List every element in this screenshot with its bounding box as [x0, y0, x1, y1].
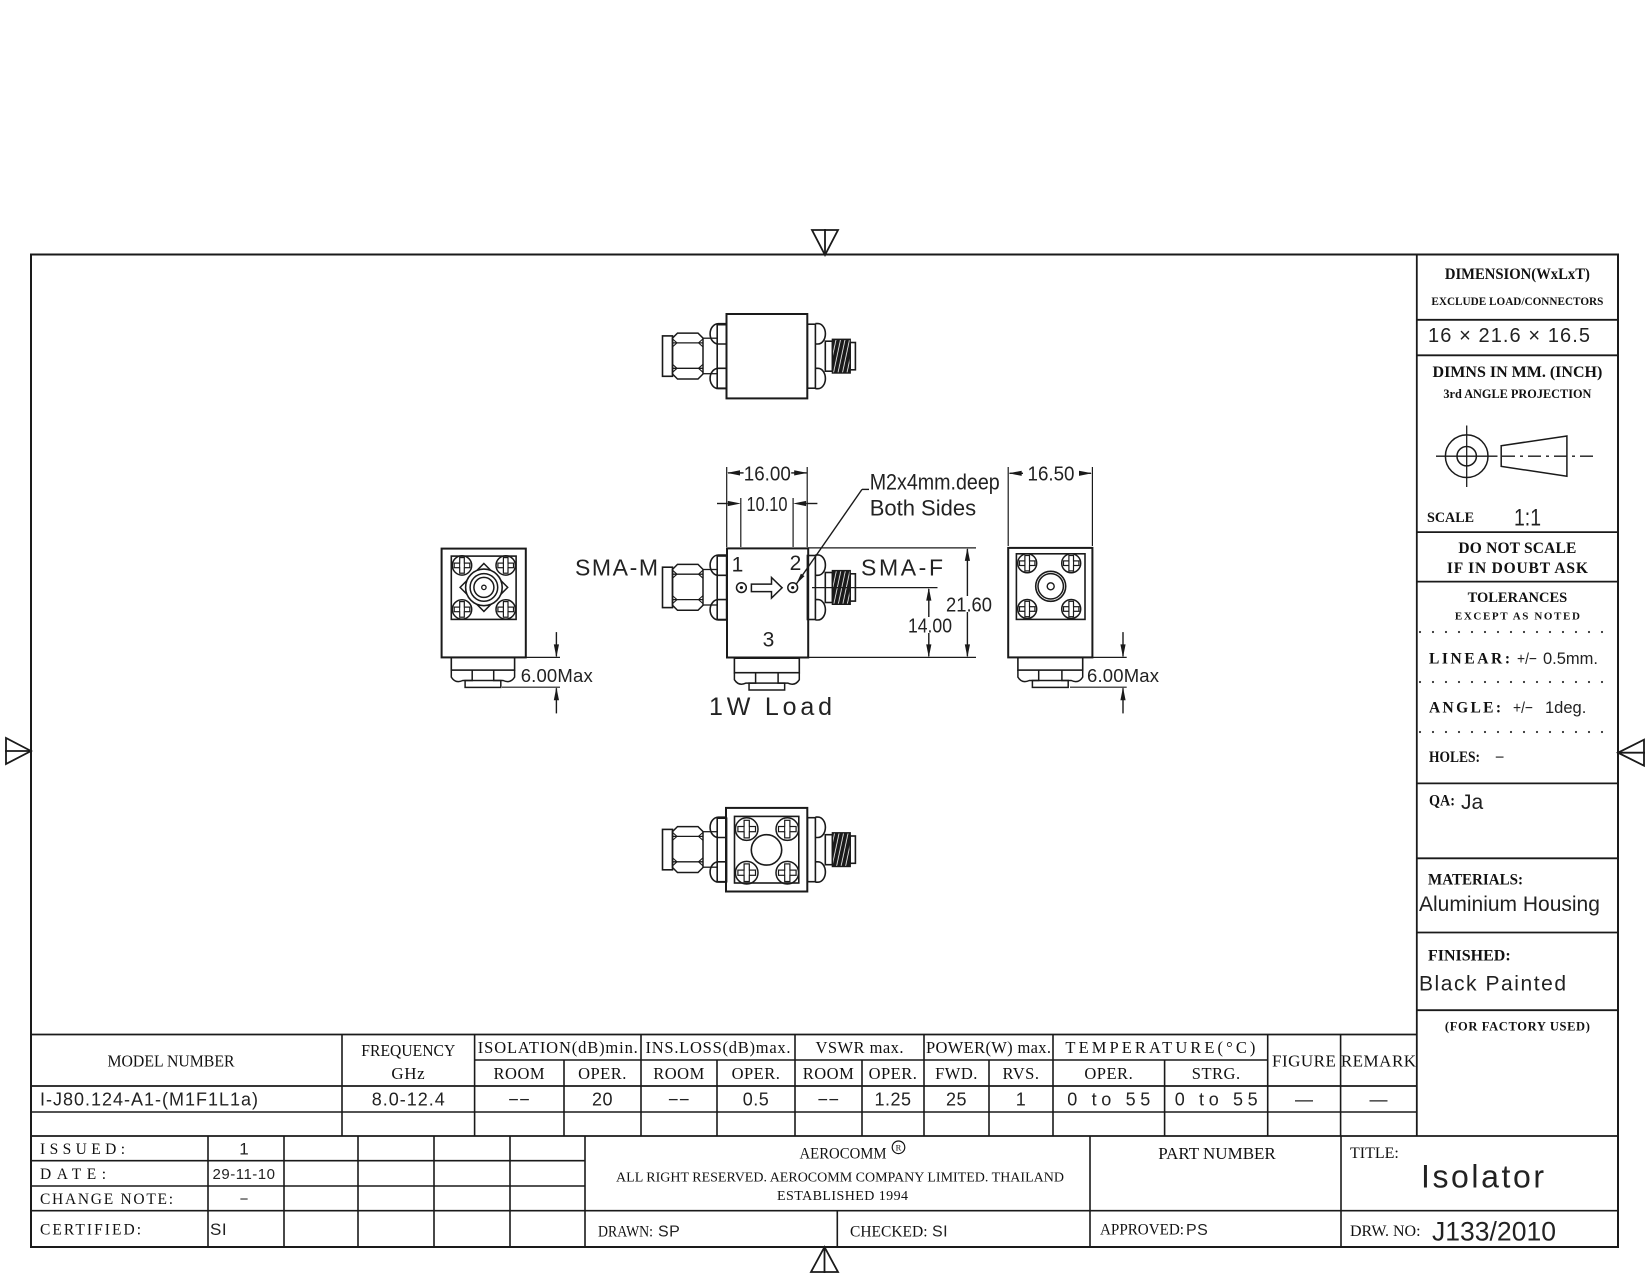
svg-text:—: — — [1295, 1090, 1314, 1110]
svg-text:DIMENSION(WxLxT): DIMENSION(WxLxT) — [1445, 266, 1590, 283]
svg-text:OPER.: OPER. — [578, 1064, 627, 1083]
svg-text:ROOM: ROOM — [803, 1064, 855, 1083]
svg-text:ESTABLISHED 1994: ESTABLISHED 1994 — [777, 1189, 908, 1204]
svg-text:6.00Max: 6.00Max — [521, 665, 594, 686]
svg-text:OPER.: OPER. — [732, 1064, 781, 1083]
svg-text:APPROVED:: APPROVED: — [1100, 1222, 1184, 1239]
svg-text:DATE:: DATE: — [40, 1166, 106, 1183]
svg-text:SMA-F: SMA-F — [861, 554, 943, 580]
svg-text:Ja: Ja — [1461, 791, 1484, 814]
svg-text:SCALE: SCALE — [1427, 510, 1474, 526]
svg-text:ALL RIGHT RESERVED. AEROCOMM: ALL RIGHT RESERVED. AEROCOMM COMPANY LIM… — [616, 1171, 1064, 1186]
svg-text:QA:: QA: — [1429, 793, 1455, 810]
svg-text:DRAWN:: DRAWN: — [598, 1223, 653, 1240]
svg-text:ISOLATION(dB)min.: ISOLATION(dB)min. — [478, 1038, 638, 1057]
svg-text:MATERIALS:: MATERIALS: — [1428, 872, 1523, 889]
svg-text:Black Painted: Black Painted — [1419, 972, 1566, 995]
svg-text:ROOM: ROOM — [494, 1064, 546, 1083]
svg-text:16.50: 16.50 — [1028, 463, 1075, 486]
svg-text:DRW. NO:: DRW. NO: — [1350, 1223, 1421, 1240]
svg-text:−−: −− — [508, 1090, 530, 1110]
svg-text:TOLERANCES: TOLERANCES — [1468, 590, 1568, 606]
svg-text:TITLE:: TITLE: — [1350, 1145, 1399, 1162]
svg-text:Aluminium Housing: Aluminium Housing — [1419, 893, 1600, 916]
svg-text:20: 20 — [592, 1090, 613, 1110]
svg-text:ISSUED:: ISSUED: — [40, 1141, 125, 1158]
svg-text:R: R — [896, 1143, 902, 1153]
svg-text:REMARK: REMARK — [1341, 1051, 1417, 1070]
svg-text:ANGLE:: ANGLE: — [1429, 700, 1501, 717]
svg-text:−: − — [240, 1191, 249, 1208]
svg-text:EXCEPT AS NOTED: EXCEPT AS NOTED — [1455, 611, 1580, 623]
svg-text:1.25: 1.25 — [874, 1090, 911, 1110]
svg-text:1: 1 — [239, 1140, 248, 1159]
svg-text:−−: −− — [668, 1090, 690, 1110]
svg-text:1deg.: 1deg. — [1545, 699, 1586, 717]
svg-text:LINEAR:: LINEAR: — [1429, 651, 1510, 668]
svg-text:0 to 55: 0 to 55 — [1175, 1090, 1258, 1110]
svg-text:EXCLUDE LOAD/CONNECTORS: EXCLUDE LOAD/CONNECTORS — [1431, 294, 1603, 308]
svg-text:3rd ANGLE PROJECTION: 3rd ANGLE PROJECTION — [1443, 387, 1591, 401]
svg-text:1:1: 1:1 — [1514, 505, 1541, 532]
svg-text:M2x4mm.deep: M2x4mm.deep — [870, 469, 1000, 494]
svg-text:16.00: 16.00 — [744, 462, 791, 485]
svg-text:21.60: 21.60 — [946, 593, 992, 616]
svg-text:ROOM: ROOM — [653, 1064, 705, 1083]
svg-text:+/−: +/− — [1517, 651, 1537, 668]
svg-text:OPER.: OPER. — [869, 1064, 918, 1083]
svg-text:TEMPERATURE(°C): TEMPERATURE(°C) — [1065, 1038, 1255, 1057]
svg-text:Both Sides: Both Sides — [870, 495, 976, 520]
svg-text:1: 1 — [1016, 1090, 1027, 1110]
svg-text:0 to 55: 0 to 55 — [1067, 1090, 1150, 1110]
svg-text:CHECKED:: CHECKED: — [850, 1223, 928, 1240]
svg-text:OPER.: OPER. — [1084, 1064, 1133, 1083]
svg-text:0.5mm.: 0.5mm. — [1543, 650, 1598, 668]
svg-text:1W Load: 1W Load — [709, 693, 832, 721]
svg-text:SP: SP — [658, 1224, 680, 1241]
svg-text:−−: −− — [817, 1090, 839, 1110]
svg-text:SI: SI — [932, 1224, 948, 1241]
svg-text:STRG.: STRG. — [1192, 1064, 1241, 1083]
svg-text:J133/2010: J133/2010 — [1432, 1217, 1556, 1247]
svg-text:16 × 21.6 × 16.5: 16 × 21.6 × 16.5 — [1428, 325, 1590, 347]
svg-text:SMA-M: SMA-M — [575, 554, 658, 580]
svg-text:I-J80.124-A1-(M1F1L1a): I-J80.124-A1-(M1F1L1a) — [40, 1090, 258, 1110]
svg-text:1: 1 — [732, 554, 744, 577]
svg-text:HOLES:: HOLES: — [1429, 749, 1480, 766]
svg-text:2: 2 — [790, 552, 802, 575]
svg-text:FINISHED:: FINISHED: — [1428, 947, 1511, 964]
svg-text:Isolator: Isolator — [1421, 1159, 1544, 1195]
svg-text:INS.LOSS(dB)max.: INS.LOSS(dB)max. — [646, 1038, 791, 1057]
svg-text:RVS.: RVS. — [1003, 1064, 1040, 1083]
svg-text:POWER(W) max.: POWER(W) max. — [926, 1038, 1051, 1057]
svg-text:SI: SI — [210, 1220, 227, 1239]
svg-text:DO NOT SCALE: DO NOT SCALE — [1458, 540, 1576, 557]
svg-text:FREQUENCY: FREQUENCY — [361, 1041, 455, 1060]
svg-text:IF IN DOUBT ASK: IF IN DOUBT ASK — [1447, 560, 1588, 577]
svg-text:CERTIFIED:: CERTIFIED: — [40, 1221, 141, 1238]
svg-text:0.5: 0.5 — [743, 1090, 770, 1110]
svg-text:6.00Max: 6.00Max — [1087, 665, 1160, 686]
svg-text:CHANGE NOTE:: CHANGE NOTE: — [40, 1191, 173, 1208]
svg-text:FIGURE: FIGURE — [1272, 1051, 1336, 1070]
svg-text:MODEL NUMBER: MODEL NUMBER — [108, 1051, 236, 1070]
svg-text:DIMNS IN MM. (INCH): DIMNS IN MM. (INCH) — [1433, 364, 1603, 381]
svg-text:AEROCOMM: AEROCOMM — [800, 1145, 887, 1162]
svg-text:—: — — [1369, 1090, 1388, 1110]
svg-text:GHz: GHz — [391, 1064, 425, 1083]
svg-text:PART NUMBER: PART NUMBER — [1158, 1144, 1276, 1163]
svg-text:FWD.: FWD. — [935, 1064, 978, 1083]
svg-text:−: − — [1495, 749, 1504, 766]
svg-text:+/−: +/− — [1513, 700, 1533, 717]
svg-text:(FOR FACTORY USED): (FOR FACTORY USED) — [1445, 1020, 1590, 1034]
svg-text:14.00: 14.00 — [908, 614, 952, 637]
svg-text:3: 3 — [763, 629, 775, 652]
svg-text:29-11-10: 29-11-10 — [213, 1166, 276, 1183]
svg-text:VSWR max.: VSWR max. — [816, 1038, 904, 1057]
svg-text:PS: PS — [1186, 1222, 1208, 1239]
svg-text:8.0-12.4: 8.0-12.4 — [372, 1090, 445, 1110]
svg-text:25: 25 — [946, 1090, 967, 1110]
svg-text:10.10: 10.10 — [747, 493, 788, 516]
